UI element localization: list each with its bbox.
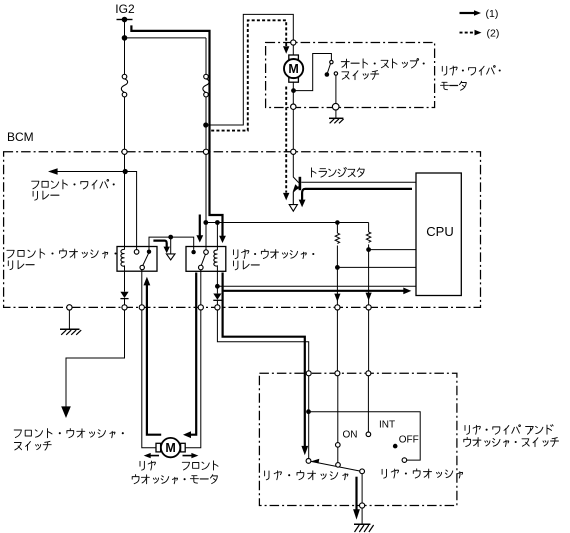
svg-text:ON: ON [343,429,358,440]
svg-text:(2): (2) [487,27,500,39]
svg-text:(1): (1) [486,8,499,20]
svg-text:OFF: OFF [399,434,419,445]
svg-text:CPU: CPU [426,224,453,239]
svg-text:M: M [288,62,298,76]
svg-text:M: M [165,441,175,455]
svg-text:BCM: BCM [7,130,34,144]
svg-text:INT: INT [379,420,395,431]
svg-text:IG2: IG2 [115,2,135,16]
